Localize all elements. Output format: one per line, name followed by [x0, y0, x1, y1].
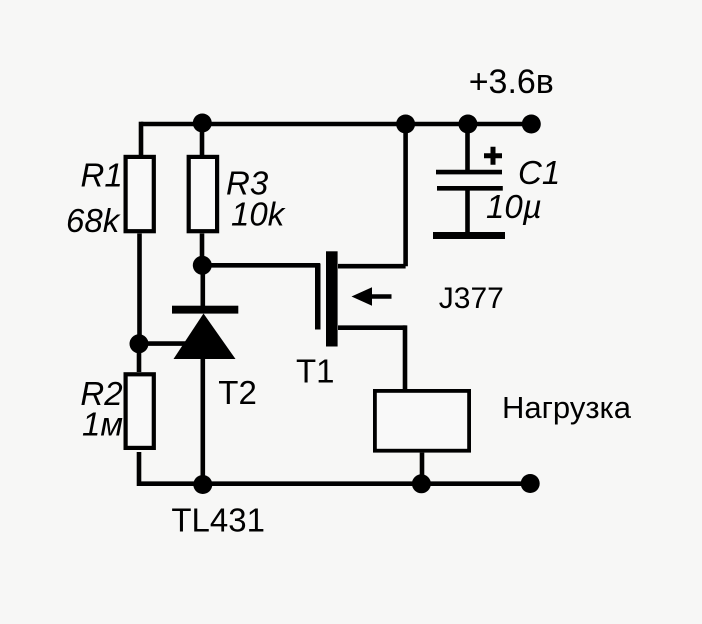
svg-text:T1: T1 [296, 353, 335, 390]
svg-text:Нагрузка: Нагрузка [502, 390, 632, 425]
svg-text:1м: 1м [82, 406, 123, 443]
svg-text:C1: C1 [518, 154, 560, 191]
svg-text:10k: 10k [231, 196, 286, 233]
svg-text:R1: R1 [81, 156, 123, 193]
svg-text:J377: J377 [439, 282, 504, 315]
svg-text:TL431: TL431 [171, 501, 265, 538]
svg-text:10µ: 10µ [486, 188, 542, 225]
svg-text:68k: 68k [66, 202, 121, 239]
svg-text:T2: T2 [218, 374, 257, 411]
svg-text:+3.6в: +3.6в [469, 63, 554, 101]
